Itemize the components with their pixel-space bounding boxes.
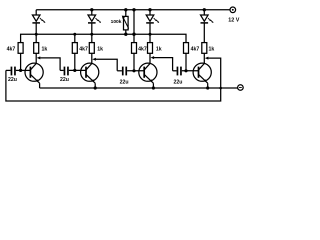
- svg-text:22u: 22u: [8, 77, 17, 83]
- wire: +12V top rail: [36, 9, 230, 11]
- svg-text:4k7: 4k7: [7, 46, 16, 52]
- node arrow at Q4 collector: [205, 57, 209, 60]
- svg-text:12 V: 12 V: [228, 18, 239, 24]
- resistor R6 1k: [148, 43, 153, 54]
- svg-text:22u: 22u: [174, 80, 183, 86]
- node Q2 emitter: [94, 86, 97, 89]
- wire rail to R5 top: [132, 8, 135, 43]
- transistor Q4: [193, 53, 211, 88]
- svg-text:1k: 1k: [42, 46, 48, 52]
- transistor Q2: [81, 53, 99, 88]
- wire R7 bottom to base node: [185, 53, 187, 71]
- LED D1: [32, 10, 45, 23]
- wire D3 cathode down: [149, 23, 151, 43]
- wire base feed line: [21, 34, 186, 42]
- node feedback crossing: [219, 87, 222, 90]
- svg-text:4k7: 4k7: [191, 46, 200, 52]
- node D2 column junction: [90, 33, 93, 36]
- wire R3 top stub: [74, 34, 76, 42]
- transistor Q3: [139, 53, 157, 88]
- svg-text:1k: 1k: [156, 46, 162, 52]
- node base/cap junction stage 3: [132, 69, 135, 72]
- capacitor C3 22u: [117, 67, 144, 76]
- svg-text:4k7: 4k7: [138, 46, 147, 52]
- node Q4 emitter: [206, 86, 209, 89]
- resistor R7 4k7: [184, 43, 189, 54]
- node arrow at Q1 collector: [37, 56, 41, 59]
- wire R3 bottom to base node: [74, 53, 76, 70]
- node Q3 emitter: [152, 86, 155, 89]
- node base/cap junction stage 2: [73, 69, 76, 72]
- node arrow at Q3 collector: [151, 56, 155, 59]
- wire Q4 collector feedback to C1: [6, 58, 221, 101]
- wire D1 cathode down: [35, 23, 37, 43]
- wire emitter ground line: [40, 87, 238, 89]
- svg-text:1k: 1k: [209, 46, 215, 52]
- node base/cap junction stage 4: [184, 69, 187, 72]
- node D1 column junction: [35, 33, 38, 36]
- node base/cap junction stage 1: [19, 69, 22, 72]
- node R3 junction: [73, 33, 76, 36]
- svg-text:22u: 22u: [60, 77, 69, 83]
- wire Q2 collector to C3: [96, 59, 118, 71]
- capacitor C2 22u: [60, 67, 86, 76]
- wire Q1 collector to C2: [40, 58, 60, 71]
- wire D2 cathode down: [91, 23, 93, 43]
- resistor R5 4k7: [132, 43, 137, 54]
- svg-text:22u: 22u: [120, 80, 129, 86]
- resistor R3 4k7: [72, 43, 77, 54]
- potentiometer P1 100k: [122, 8, 129, 36]
- resistor R1 4k7: [18, 43, 23, 54]
- LED D3: [146, 8, 159, 23]
- capacitor C1 22u: [6, 67, 31, 76]
- LED D4: [201, 8, 214, 23]
- terminal minus: [238, 85, 244, 91]
- resistor R4 1k: [89, 43, 94, 54]
- svg-text:1k: 1k: [97, 46, 103, 52]
- node arrow at Q2 collector: [92, 58, 96, 61]
- svg-text:4k7: 4k7: [79, 46, 88, 52]
- wire R5 bottom to base node: [133, 53, 135, 71]
- capacitor C4 22u: [173, 67, 199, 76]
- resistor R8 1k: [202, 43, 207, 54]
- node D3 column junction: [149, 33, 152, 36]
- wire R1 bottom to base node: [20, 53, 22, 70]
- LED D2: [88, 8, 101, 23]
- transistor Q1: [25, 53, 43, 88]
- wire D4 cathode down: [203, 23, 205, 43]
- resistor R2 1k: [34, 43, 39, 54]
- wire Q3 collector to C4: [154, 58, 173, 71]
- svg-text:100k: 100k: [111, 19, 122, 25]
- terminal +12V: [230, 7, 236, 13]
